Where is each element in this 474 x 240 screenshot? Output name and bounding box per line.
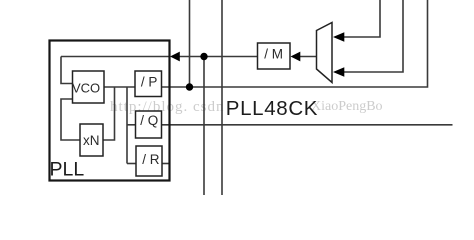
divider /M box bbox=[258, 43, 291, 69]
divider /R box bbox=[136, 146, 162, 176]
xN box bbox=[80, 124, 103, 156]
svg-text:/ P: / P bbox=[141, 74, 158, 89]
wire: mux upper input from top bbox=[344, 0, 380, 37]
svg-text:/ R: / R bbox=[142, 152, 160, 167]
svg-text:PLL: PLL bbox=[50, 159, 85, 181]
wire: /P output (PLLCLK) to right, then up off top bbox=[162, 0, 428, 87]
wire: /M output to PLL input (horizontal y=56.5) bbox=[179, 56, 258, 58]
svg-text:XiaoPengBo: XiaoPengBo bbox=[311, 99, 383, 114]
VCO box bbox=[73, 71, 105, 103]
svg-text:xN: xN bbox=[83, 133, 100, 148]
divider /P box bbox=[135, 71, 162, 97]
divider /Q box bbox=[136, 111, 162, 138]
svg-text:PLL48CK: PLL48CK bbox=[226, 97, 318, 120]
wire: /R output stub bbox=[162, 163, 170, 165]
wire: mux output to /M (horizontal y=56.5) bbox=[299, 56, 317, 58]
svg-text:/ M: / M bbox=[264, 47, 283, 62]
wire: rail to /Q input bbox=[127, 124, 136, 126]
wire: rail to /R input bbox=[127, 163, 136, 165]
svg-text:VCO: VCO bbox=[72, 81, 100, 96]
node: junction dot on /M line bbox=[200, 53, 207, 60]
svg-text:/ Q: / Q bbox=[140, 113, 158, 128]
wire: vertical line B (PLL input branch down) bbox=[203, 57, 205, 196]
wire: vertical line A (PLLCLK branch to top) bbox=[189, 0, 191, 87]
wire: VCO lower-left pin down to xN input bbox=[61, 99, 80, 140]
arrowhead into PLL box bbox=[170, 52, 180, 62]
wire: /Q output (PLL48CK) long line bbox=[162, 124, 453, 126]
wire: mux lower input from top bbox=[344, 0, 403, 72]
arrowhead into /M box bbox=[291, 52, 301, 62]
mux (clock source selector trapezoid) bbox=[317, 23, 333, 83]
node: junction dot on /P line bbox=[186, 83, 193, 90]
arrowhead into mux upper input bbox=[333, 32, 344, 42]
wire: inside PLL box, input run at y=56.5 bbox=[61, 56, 170, 58]
PLL box bbox=[50, 41, 170, 181]
wire: vertical line C full height bbox=[221, 0, 223, 195]
wire: vertical down to VCO upper-left pin bbox=[61, 57, 73, 84]
wire: xN output up to VCO output line bbox=[103, 87, 115, 140]
wire: VCO output to /P input (y=87) bbox=[104, 86, 135, 88]
arrowhead into mux lower input bbox=[333, 67, 344, 77]
wire: divider input rail bbox=[126, 87, 128, 164]
